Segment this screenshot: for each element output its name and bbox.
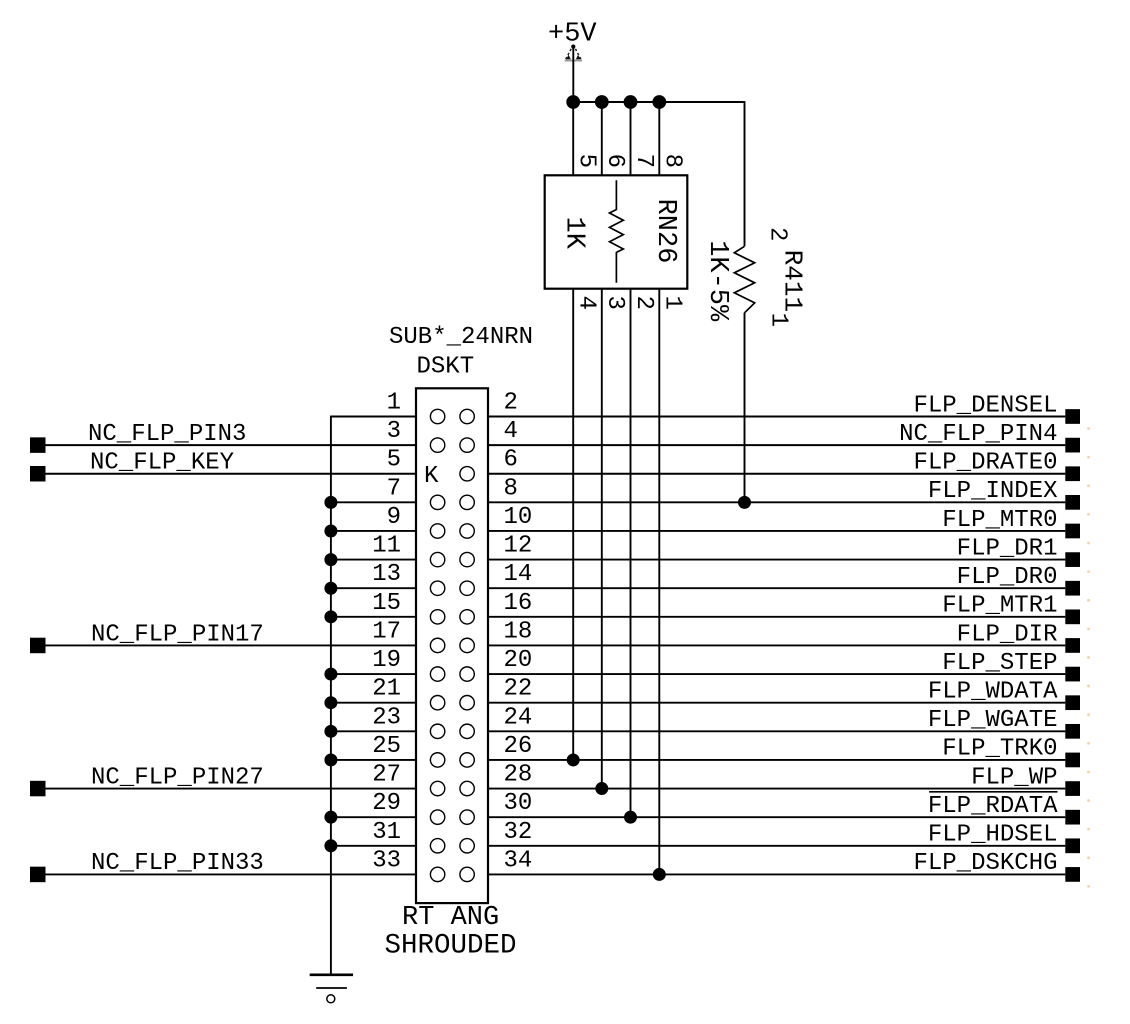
svg-text:32: 32	[504, 819, 533, 846]
svg-text:31: 31	[372, 819, 401, 846]
svg-text:1: 1	[764, 313, 791, 327]
node FLP_MTR1	[488, 593, 1080, 625]
junction on +5V bus at pin 6 wire	[595, 95, 609, 109]
pin number 28	[504, 762, 533, 789]
pin number 8	[504, 475, 518, 502]
svg-text:DSKT: DSKT	[417, 354, 475, 381]
svg-text:FLP_HDSEL: FLP_HDSEL	[928, 822, 1058, 849]
svg-text:K: K	[424, 463, 439, 490]
grid dot	[1087, 542, 1090, 545]
svg-text:2: 2	[764, 227, 791, 241]
svg-text:NC_FLP_PIN33: NC_FLP_PIN33	[91, 850, 264, 877]
wire RN26 pin 1 to row	[653, 289, 666, 881]
svg-text:1: 1	[387, 390, 401, 417]
wire pin 13 to ground bus	[324, 582, 416, 595]
svg-text:NC_FLP_PIN3: NC_FLP_PIN3	[88, 421, 246, 448]
junction on +5V bus at pin 7 wire	[624, 95, 638, 109]
svg-text:30: 30	[504, 790, 533, 817]
pin number 30	[504, 790, 533, 817]
node FLP_STEP	[488, 650, 1080, 682]
svg-text:17: 17	[372, 618, 401, 645]
pin number 29	[372, 790, 401, 817]
svg-text:10: 10	[504, 504, 533, 531]
grid dot	[1087, 599, 1090, 602]
grid dot	[1087, 685, 1090, 688]
connector hole pair row 11/12	[430, 552, 474, 566]
node NC_FLP_PIN33	[30, 850, 416, 882]
svg-text:9: 9	[387, 504, 401, 531]
node FLP_INDEX	[488, 478, 1080, 510]
svg-text:7: 7	[630, 154, 657, 168]
connector hole pair row 13/14	[430, 581, 474, 595]
wire pin 21 to ground bus	[324, 696, 416, 709]
svg-text:FLP_DR0: FLP_DR0	[957, 564, 1058, 591]
wire R411 to FLP_INDEX	[738, 313, 751, 509]
RN26 pin number 5	[573, 154, 600, 168]
resistor network RN26	[545, 175, 688, 288]
grid dot	[1087, 570, 1090, 573]
pin number 14	[504, 561, 533, 588]
grid dot	[1087, 856, 1090, 859]
grid dot	[1087, 885, 1090, 888]
node FLP_WGATE	[488, 707, 1080, 739]
connector hole pair row 23/24	[430, 724, 474, 738]
pin number 15	[372, 590, 401, 617]
RN26 pin number 6	[601, 154, 628, 168]
svg-text:2: 2	[504, 390, 518, 417]
svg-text:33: 33	[372, 847, 401, 874]
wire pin 25 to ground bus	[324, 753, 416, 766]
grid dot	[1087, 513, 1090, 516]
connector hole pair row 1/2	[430, 409, 474, 423]
wire +5V bus	[573, 101, 744, 103]
node FLP_HDSEL	[488, 822, 1080, 854]
node FLP_RDATA	[488, 792, 1080, 825]
svg-text:5: 5	[387, 447, 401, 474]
node FLP_MTR0	[488, 507, 1080, 539]
grid dot	[1087, 742, 1090, 745]
wire pin 31 to ground bus	[324, 839, 416, 852]
svg-text:FLP_MTR1: FLP_MTR1	[942, 593, 1057, 620]
svg-text:R411: R411	[777, 250, 807, 312]
resistor R411 1K-5%	[702, 227, 807, 327]
node NC_FLP_KEY	[30, 450, 416, 482]
svg-text:34: 34	[504, 847, 533, 874]
RN26 pin number 2	[630, 296, 657, 310]
RN26 pin number 1	[659, 296, 686, 310]
svg-text:4: 4	[504, 418, 518, 445]
svg-text:NC_FLP_PIN27: NC_FLP_PIN27	[91, 764, 264, 791]
svg-text:28: 28	[504, 762, 533, 789]
connector hole pair row 25/26	[430, 753, 474, 767]
svg-text:NC_FLP_PIN4: NC_FLP_PIN4	[899, 421, 1057, 448]
wire pin1 to ground bus	[331, 416, 416, 418]
junction on +5V bus at pin 8 wire	[652, 95, 666, 109]
node FLP_TRK0	[488, 736, 1080, 768]
svg-text:20: 20	[504, 647, 533, 674]
svg-text:FLP_DSKCHG: FLP_DSKCHG	[913, 850, 1057, 877]
svg-text:1K-5%: 1K-5%	[702, 240, 732, 322]
RN26 pin number 7	[630, 154, 657, 168]
pin number 33	[372, 847, 401, 874]
pin number 20	[504, 647, 533, 674]
svg-text:NC_FLP_PIN17: NC_FLP_PIN17	[91, 621, 264, 648]
svg-text:4: 4	[573, 296, 600, 310]
pin number 24	[504, 704, 533, 731]
svg-text:FLP_DENSEL: FLP_DENSEL	[913, 392, 1057, 419]
pin number 6	[504, 447, 518, 474]
svg-text:11: 11	[372, 533, 401, 560]
grid dot	[1087, 713, 1090, 716]
svg-text:FLP_WDATA: FLP_WDATA	[928, 679, 1058, 706]
node FLP_DR0	[488, 564, 1080, 596]
pin number 18	[504, 618, 533, 645]
wire pin 7 to ground bus	[324, 496, 416, 509]
svg-text:21: 21	[372, 676, 401, 703]
pin number 25	[372, 733, 401, 760]
wire RN26 pin 3 to row	[595, 289, 608, 795]
svg-text:FLP_WGATE: FLP_WGATE	[928, 707, 1058, 734]
wire pin 23 to ground bus	[324, 725, 416, 738]
svg-text:FLP_TRK0: FLP_TRK0	[942, 736, 1057, 763]
pin number 21	[372, 676, 401, 703]
pin number 31	[372, 819, 401, 846]
pin number 23	[372, 704, 401, 731]
connector hole pair row 33/34	[430, 867, 474, 881]
connector hole pair row 7/8	[430, 495, 474, 509]
wire RN26 pin 4 to row	[567, 289, 580, 767]
svg-text:3: 3	[601, 296, 628, 310]
wire bus to R411	[744, 101, 746, 246]
svg-text:SUB*_24NRN: SUB*_24NRN	[389, 324, 533, 351]
pin number 7	[387, 475, 401, 502]
wire pin 19 to ground bus	[324, 668, 416, 681]
pin number 9	[387, 504, 401, 531]
pin number 27	[372, 762, 401, 789]
pin number 2	[504, 390, 518, 417]
svg-text:8: 8	[504, 475, 518, 502]
pin number 16	[504, 590, 533, 617]
svg-text:FLP_STEP: FLP_STEP	[942, 650, 1057, 677]
svg-text:SHROUDED: SHROUDED	[385, 931, 517, 962]
node FLP_DR1	[488, 535, 1080, 567]
pin number 34	[504, 847, 533, 874]
svg-text:25: 25	[372, 733, 401, 760]
power +5V	[548, 20, 597, 103]
pin number 10	[504, 504, 533, 531]
svg-text:FLP_WP: FLP_WP	[971, 764, 1057, 791]
node FLP_DRATE0	[488, 450, 1080, 482]
wire pin 29 to ground bus	[324, 811, 416, 824]
svg-text:FLP_DRATE0: FLP_DRATE0	[913, 450, 1057, 477]
grid dot	[1087, 427, 1090, 430]
svg-text:16: 16	[504, 590, 533, 617]
svg-text:26: 26	[504, 733, 533, 760]
svg-text:3: 3	[387, 418, 401, 445]
svg-text:19: 19	[372, 647, 401, 674]
svg-text:23: 23	[372, 704, 401, 731]
pin number 26	[504, 733, 533, 760]
pin number 12	[504, 533, 533, 560]
RN26 pin number 3	[601, 296, 628, 310]
node NC_FLP_PIN27	[30, 764, 416, 796]
RN26 pin number 8	[659, 154, 686, 168]
wire RN26 pin 8	[658, 102, 660, 175]
connector hole pair row 21/22	[430, 696, 474, 710]
svg-text:1: 1	[659, 296, 686, 310]
wire RN26 pin 5	[572, 102, 574, 175]
connector key K	[424, 463, 474, 490]
svg-text:RT ANG: RT ANG	[402, 903, 499, 933]
pin number 13	[372, 561, 401, 588]
wire RN26 pin 7	[630, 102, 632, 175]
pin number 4	[504, 418, 518, 445]
svg-text:22: 22	[504, 676, 533, 703]
svg-text:RN26: RN26	[650, 199, 680, 264]
connector hole pair row 27/28	[430, 781, 474, 795]
grid dot	[1087, 627, 1090, 630]
svg-text:13: 13	[372, 561, 401, 588]
svg-text:FLP_MTR0: FLP_MTR0	[942, 507, 1057, 534]
pin number 3	[387, 418, 401, 445]
wire pin 9 to ground bus	[324, 524, 416, 537]
junction on +5V bus at pin 5 wire	[566, 95, 580, 109]
svg-text:8: 8	[659, 154, 686, 168]
connector hole pair row 9/10	[430, 524, 474, 538]
RN26 pin number 4	[573, 296, 600, 310]
ground	[310, 975, 353, 1003]
svg-text:7: 7	[387, 475, 401, 502]
svg-text:FLP_INDEX: FLP_INDEX	[928, 478, 1058, 505]
svg-text:12: 12	[504, 533, 533, 560]
pin number 19	[372, 647, 401, 674]
node FLP_DIR	[488, 621, 1080, 653]
pin number 1	[387, 390, 401, 417]
pin number 17	[372, 618, 401, 645]
grid dot	[1087, 484, 1090, 487]
svg-text:6: 6	[504, 447, 518, 474]
connector hole pair row 31/32	[430, 839, 474, 853]
pin number 32	[504, 819, 533, 846]
pin number 22	[504, 676, 533, 703]
svg-text:FLP_DR1: FLP_DR1	[957, 535, 1058, 562]
svg-text:FLP_DIR: FLP_DIR	[957, 621, 1058, 648]
svg-text:6: 6	[601, 154, 628, 168]
node FLP_WP	[488, 764, 1080, 796]
svg-text:2: 2	[630, 296, 657, 310]
svg-text:27: 27	[372, 762, 401, 789]
connector hole pair row 3/4	[430, 438, 474, 452]
svg-text:15: 15	[372, 590, 401, 617]
wire pin 11 to ground bus	[324, 553, 416, 566]
svg-text:5: 5	[573, 154, 600, 168]
node NC_FLP_PIN17	[30, 621, 416, 653]
grid dot	[1087, 656, 1090, 659]
svg-text:29: 29	[372, 790, 401, 817]
grid dot	[1087, 456, 1090, 459]
wire RN26 pin 6	[601, 102, 603, 175]
connector hole pair row 15/16	[430, 610, 474, 624]
node NC_FLP_PIN3	[30, 421, 416, 453]
grid dot	[1087, 799, 1090, 802]
pin number 11	[372, 533, 401, 560]
connector DSKT SUB*_24NRN	[385, 324, 534, 962]
node FLP_DENSEL	[488, 392, 1080, 424]
connector hole pair row 19/20	[430, 667, 474, 681]
connector hole pair row 29/30	[430, 810, 474, 824]
svg-text:14: 14	[504, 561, 533, 588]
pin number 5	[387, 447, 401, 474]
connector hole pair row 17/18	[430, 638, 474, 652]
node FLP_WDATA	[488, 679, 1080, 711]
svg-text:FLP_RDATA: FLP_RDATA	[928, 793, 1058, 820]
node FLP_DSKCHG	[488, 850, 1080, 882]
ground bus wire	[330, 416, 332, 974]
svg-text:NC_FLP_KEY: NC_FLP_KEY	[90, 450, 234, 477]
grid dot	[1087, 771, 1090, 774]
svg-text:1K: 1K	[558, 217, 588, 250]
svg-text:18: 18	[504, 618, 533, 645]
wire RN26 pin 2 to row	[624, 289, 637, 824]
wire pin 15 to ground bus	[324, 610, 416, 623]
grid dot	[1087, 828, 1090, 831]
svg-text:24: 24	[504, 704, 533, 731]
node NC_FLP_PIN4	[488, 421, 1080, 453]
